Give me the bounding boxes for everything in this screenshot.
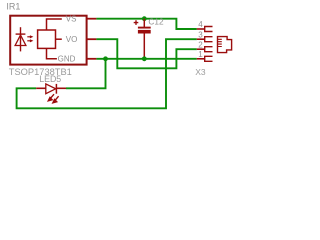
LED5 cathode bar (55, 84, 57, 94)
X3 pin 1 stub and contact (197, 58, 205, 60)
svg-text:GND: GND (58, 55, 76, 64)
capacitor C12 positive lead (143, 19, 145, 27)
svg-text:2: 2 (198, 40, 203, 49)
svg-text:LED5: LED5 (39, 74, 61, 84)
photodiode triangle (outline, apex up) (15, 35, 26, 46)
wire LED cathode riser up to GND rail (66, 59, 106, 89)
IR1 internal VS connection line (47, 19, 62, 30)
junction node on VS net at C12 top (142, 16, 147, 21)
capacitor C12 bottom plate (filled) (138, 30, 151, 34)
LED5 triangle (outline, pointing right) (46, 84, 56, 94)
svg-text:VO: VO (66, 35, 78, 44)
photodiode light arrow 1 (27, 36, 30, 38)
X3 pin 3 stub and contact (197, 38, 205, 40)
wire LED anode: left, down and along bottom rail up to X3 pin3 (17, 39, 197, 108)
IR1 GND pin stub (86, 58, 96, 60)
wire VO net: IR1 VO right, down, right to X3 pin2 riser (96, 39, 196, 68)
LED5 emission arrow 2 (55, 96, 58, 100)
photodiode light arrow 2 (27, 40, 30, 42)
LED5 cathode lead (56, 87, 66, 89)
svg-text:X3: X3 (195, 67, 206, 77)
capacitor C12 negative lead down to GND rail (143, 34, 145, 59)
junction node GND rail / C12 (142, 56, 147, 61)
photodiode inside IR1: vertical lead (20, 27, 22, 51)
LED5 emission arrow 1 (51, 94, 54, 98)
LED5 anode lead (36, 87, 46, 89)
IR1 internal GND connection line (47, 48, 57, 58)
IR1 VS pin stub (86, 18, 96, 20)
svg-text:IR1: IR1 (6, 2, 20, 12)
wire VS net: IR1 VS to X3 pin4 jog (96, 19, 196, 29)
X3 pin 2 stub and contact (197, 48, 205, 50)
svg-text:3: 3 (198, 30, 203, 39)
svg-text:VS: VS (66, 15, 77, 24)
svg-text:C12: C12 (148, 16, 164, 26)
wire GND rail: IR1 GND to X3 pin1 (96, 58, 196, 60)
demodulator block square inside IR1 (38, 30, 56, 48)
junction node GND rail / LED cathode riser (103, 56, 108, 61)
X3 pin 4 stub and contact (197, 28, 205, 30)
IR1 internal VO connection line (56, 38, 62, 40)
svg-text:1: 1 (198, 50, 203, 59)
IR receiver IR1 box outline (10, 16, 86, 65)
capacitor C12 plus sign (134, 20, 139, 25)
svg-text:4: 4 (198, 20, 203, 29)
photodiode cathode bar (16, 33, 26, 35)
IR1 VO pin stub (86, 38, 96, 40)
X3 jack body outline (218, 37, 232, 53)
capacitor C12 top plate (138, 27, 151, 29)
X3 jack contact ticks (218, 39, 222, 46)
